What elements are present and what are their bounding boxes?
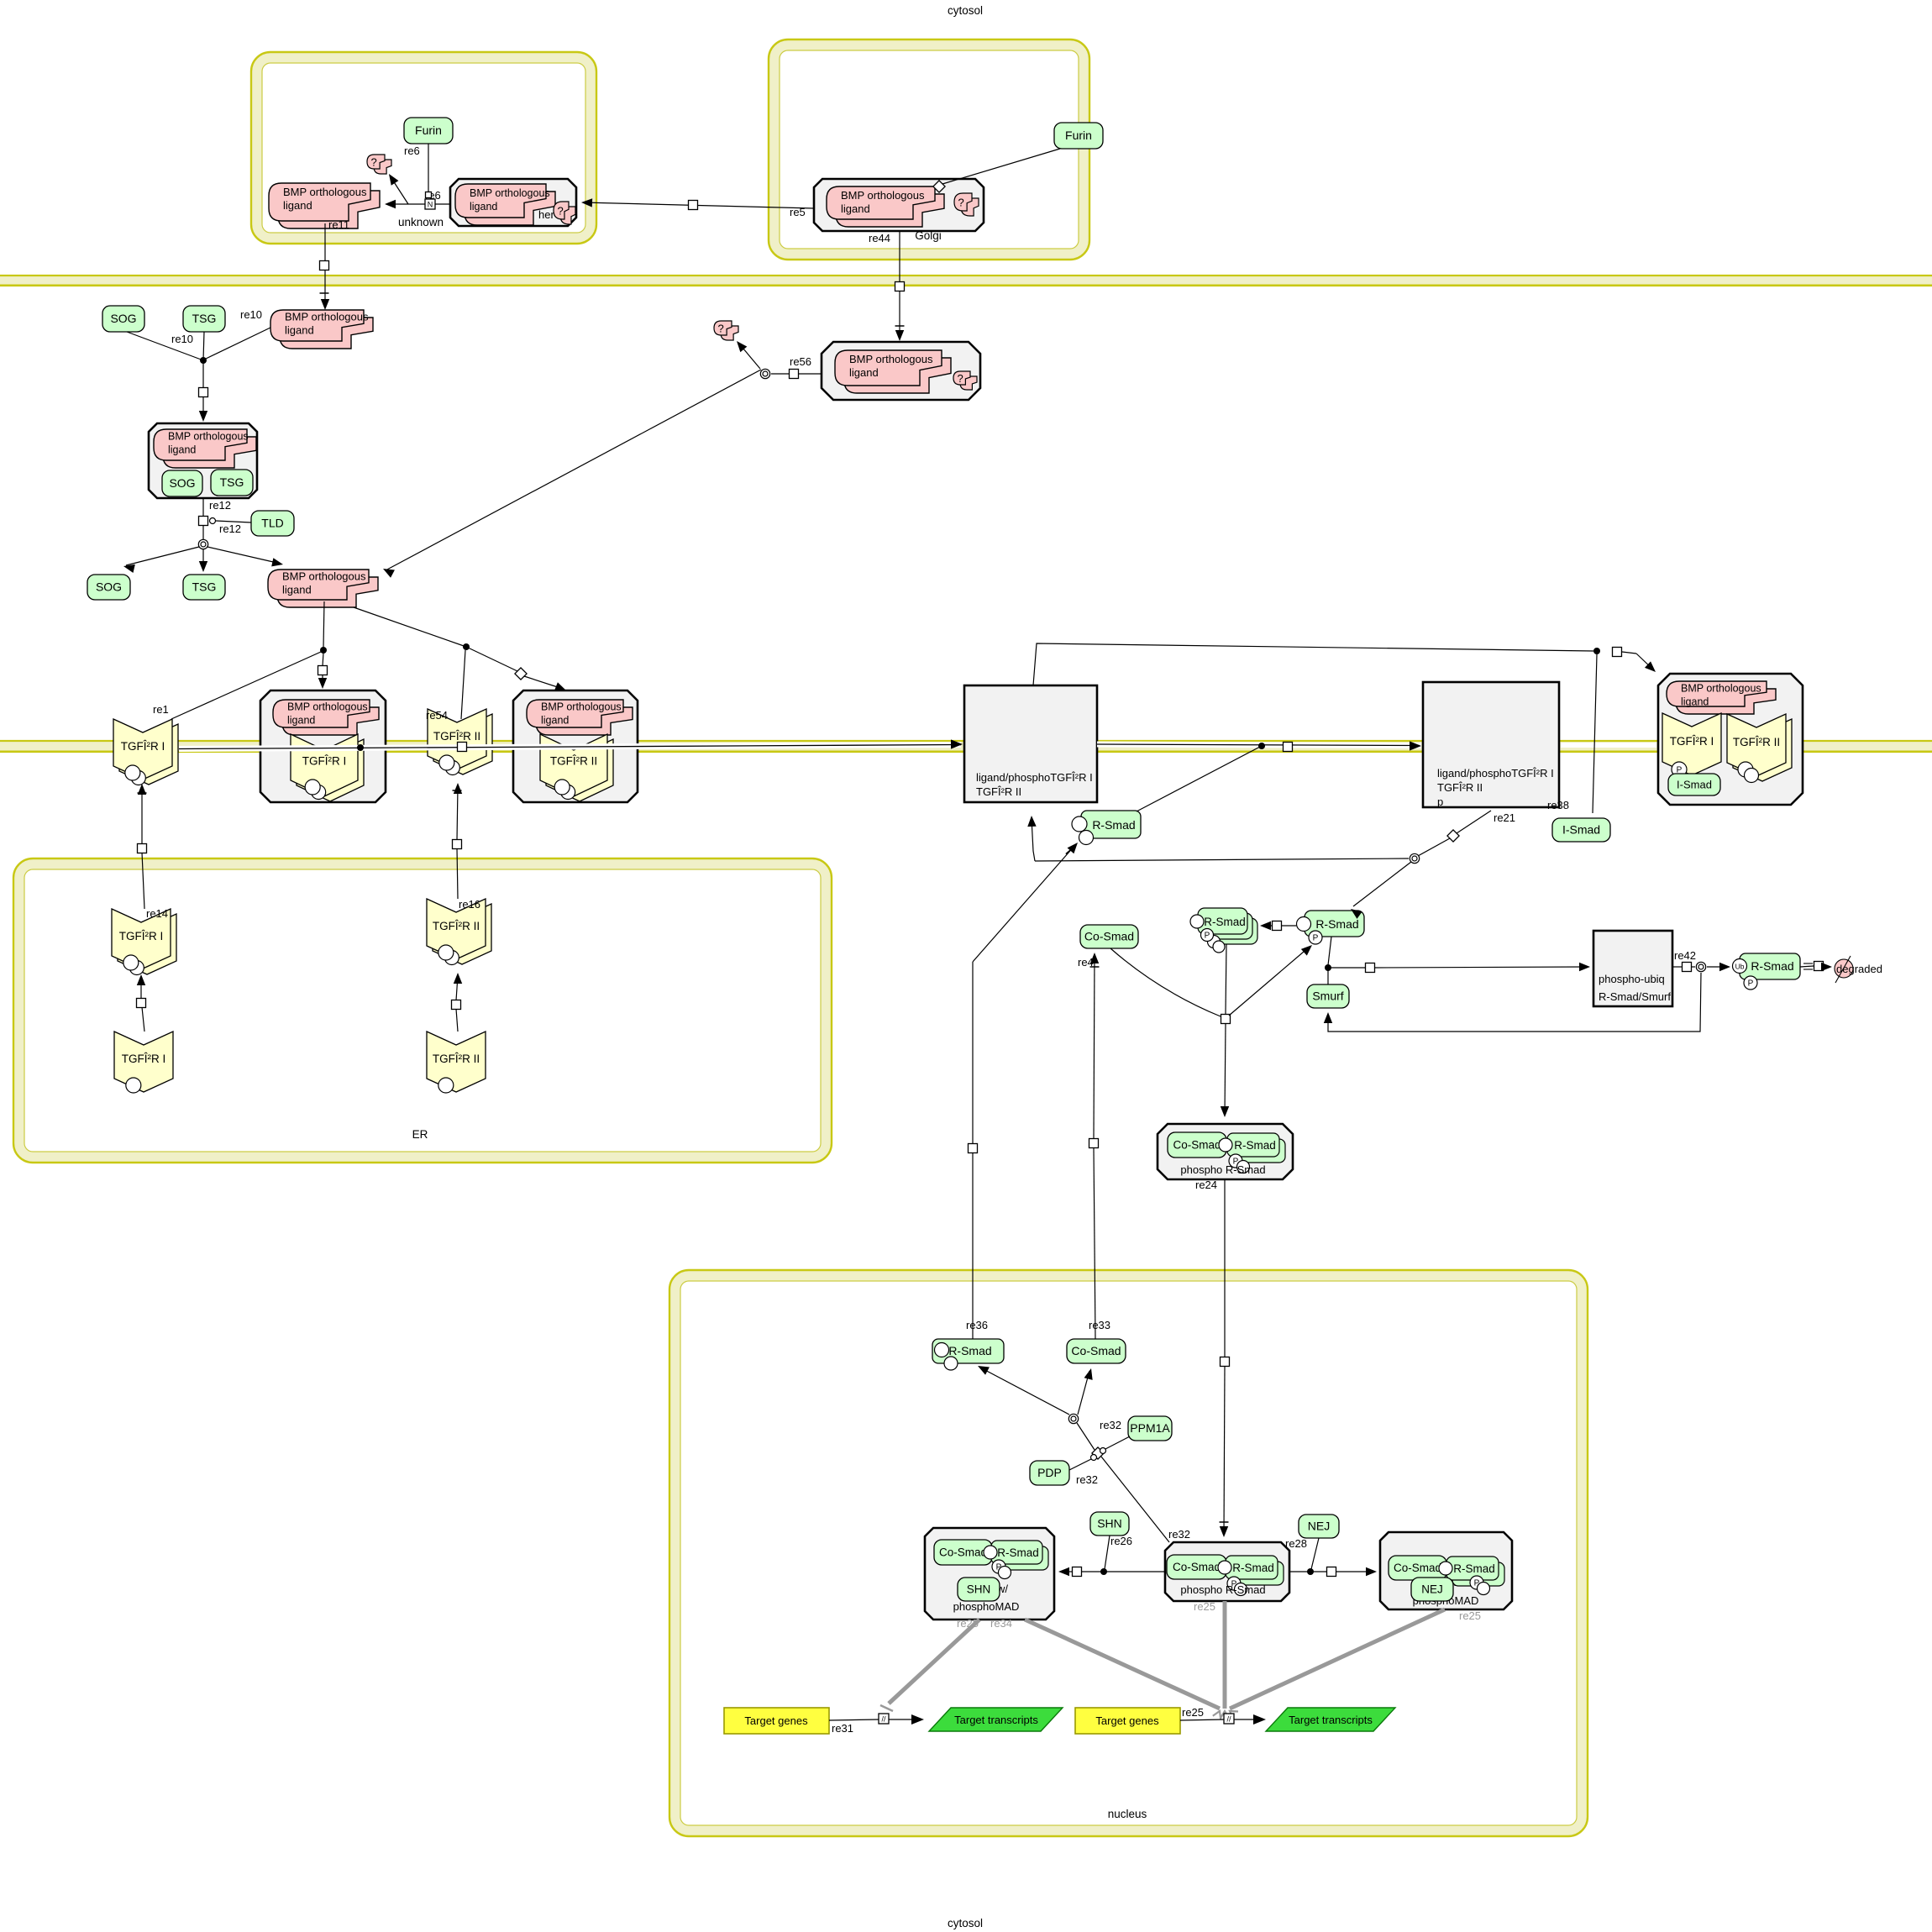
svg-text:re21: re21 [1494,811,1515,824]
svg-text:re54: re54 [426,709,448,722]
svg-text:Furin: Furin [1065,129,1092,142]
svg-text:Co-Smad: Co-Smad [1071,1344,1121,1357]
svg-text:Target genes: Target genes [1095,1714,1159,1727]
svg-text:R-Smad: R-Smad [1204,916,1246,928]
svg-text://: // [1226,1715,1231,1724]
svg-text:BMP orthologous: BMP orthologous [168,431,249,443]
svg-text:cytosol: cytosol [948,1917,983,1929]
svg-text:ligand/phosphoTGFÎ²R I: ligand/phosphoTGFÎ²R I [976,771,1093,784]
svg-text:BMP orthologous: BMP orthologous [287,701,368,713]
svg-text:re12: re12 [209,499,231,512]
svg-text:ligand: ligand [282,584,312,596]
svg-text:unknown: unknown [398,216,444,228]
svg-text:P: P [1313,934,1319,943]
svg-text:Co-Smad: Co-Smad [939,1546,987,1559]
svg-text:TGFÎ²R II: TGFÎ²R II [1733,736,1780,748]
svg-text:Ub: Ub [1735,963,1745,971]
svg-text:TGFÎ²R II: TGFÎ²R II [433,1053,480,1065]
svg-text:re34: re34 [990,1617,1012,1630]
svg-text:I-Smad: I-Smad [1677,779,1712,791]
svg-text:TGFÎ²R I: TGFÎ²R I [122,1053,166,1065]
svg-text:BMP orthologous: BMP orthologous [849,353,933,365]
svg-text:?: ? [371,156,377,169]
svg-text:BMP orthologous: BMP orthologous [282,570,366,583]
svg-text:ligand: ligand [541,715,569,727]
svg-text:TGFÎ²R II: TGFÎ²R II [550,755,597,768]
svg-text:BMP orthologous: BMP orthologous [1681,683,1761,695]
svg-text:degraded: degraded [1836,963,1882,975]
svg-text:I-Smad: I-Smad [1562,823,1600,837]
svg-text:R-Smad: R-Smad [1092,818,1135,832]
svg-text:phospho-ubiq: phospho-ubiq [1599,973,1665,985]
svg-text:TSG: TSG [192,312,217,325]
svg-text:?: ? [718,323,724,335]
svg-text:phospho R-Smad: phospho R-Smad [1180,1163,1265,1176]
svg-text:ligand: ligand [285,324,314,337]
svg-text:R-Smad: R-Smad [1232,1562,1274,1574]
svg-text:TGFÎ²R I: TGFÎ²R I [1670,735,1714,748]
svg-text:ligand: ligand [849,366,879,379]
svg-text:TSG: TSG [220,475,244,489]
svg-text:nucleus: nucleus [1108,1808,1147,1820]
svg-text:Co-Smad: Co-Smad [1173,1561,1221,1573]
svg-text:re25: re25 [1194,1600,1215,1613]
svg-text:re31: re31 [832,1722,853,1735]
svg-text:re56: re56 [790,355,811,368]
svg-text:TGFÎ²R I: TGFÎ²R I [121,740,165,753]
svg-text:re10: re10 [171,333,193,345]
svg-text:phosphoMAD: phosphoMAD [953,1600,1020,1613]
svg-text:BMP orthologous: BMP orthologous [470,187,550,199]
svg-text:p: p [1437,795,1443,808]
svg-text:re32: re32 [1076,1473,1098,1486]
svg-text:ligand: ligand [287,715,315,727]
svg-text:ligand: ligand [1681,696,1709,708]
svg-text:re28: re28 [1285,1537,1307,1550]
svg-text:ER: ER [412,1128,428,1141]
svg-text:re10: re10 [240,308,262,321]
svg-text:TGFÎ²R II: TGFÎ²R II [433,730,480,743]
svg-text:BMP orthologous: BMP orthologous [285,311,369,323]
svg-text:R-Smad: R-Smad [1315,917,1358,931]
svg-text:re32: re32 [1100,1419,1121,1431]
svg-text:phospho R-Smad: phospho R-Smad [1180,1583,1265,1596]
svg-text:R-Smad: R-Smad [948,1344,991,1357]
svg-text:ligand: ligand [168,444,196,456]
svg-text:P: P [1205,932,1210,941]
svg-text:Co-Smad: Co-Smad [1084,930,1134,943]
svg-text:ligand: ligand [470,201,497,213]
svg-text:BMP orthologous: BMP orthologous [841,189,925,202]
svg-text:?: ? [958,372,963,385]
svg-text:Target transcripts: Target transcripts [1289,1714,1373,1726]
svg-text:Target genes: Target genes [744,1714,808,1727]
svg-text:?: ? [958,197,964,209]
svg-text:Co-Smad: Co-Smad [1394,1562,1441,1574]
svg-text:P: P [1748,979,1754,989]
svg-text:her: her [538,208,554,221]
svg-text:ligand: ligand [283,199,312,212]
svg-text:NEJ: NEJ [1421,1583,1443,1596]
svg-text:R-Smad: R-Smad [1453,1562,1495,1575]
svg-text:TGFÎ²R II: TGFÎ²R II [433,920,480,932]
svg-text:re44: re44 [869,232,890,244]
svg-text:re16: re16 [459,898,480,911]
svg-text:cytosol: cytosol [948,4,983,17]
svg-text:R-Smad: R-Smad [1234,1139,1276,1152]
svg-text:TGFÎ²R II: TGFÎ²R II [976,785,1021,798]
svg-text:SOG: SOG [169,476,195,490]
svg-text:NEJ: NEJ [1308,1520,1330,1533]
svg-text:re24: re24 [1195,1179,1217,1191]
svg-text:re42: re42 [1674,949,1696,962]
svg-text:re14: re14 [146,907,168,920]
svg-text:TGFÎ²R I: TGFÎ²R I [119,930,164,942]
svg-text:re36: re36 [966,1319,988,1331]
svg-text:N: N [428,201,433,209]
svg-text:PDP: PDP [1037,1466,1062,1479]
svg-text:re38: re38 [1547,799,1569,811]
svg-text:SOG: SOG [96,580,122,594]
svg-text:Target transcripts: Target transcripts [954,1714,1038,1726]
svg-text:re25: re25 [1459,1609,1481,1622]
svg-text:SHN: SHN [967,1583,991,1596]
svg-text:Co-Smad: Co-Smad [1173,1139,1221,1152]
svg-text:TLD: TLD [261,517,283,530]
svg-text:R-Smad/Smurf: R-Smad/Smurf [1599,990,1671,1003]
svg-text:TGFÎ²R I: TGFÎ²R I [302,755,347,768]
svg-text:TSG: TSG [192,580,217,594]
svg-text://: // [881,1715,886,1724]
svg-text:PPM1A: PPM1A [1130,1421,1170,1435]
svg-text:re12: re12 [219,522,241,535]
svg-text:?: ? [558,205,564,218]
svg-text:Smurf: Smurf [1312,990,1343,1003]
svg-text:ligand: ligand [841,202,870,215]
svg-text:BMP orthologous: BMP orthologous [283,186,367,198]
svg-text:re26: re26 [1110,1535,1132,1547]
svg-text:SHN: SHN [1097,1517,1122,1530]
svg-text:ligand/phosphoTGFÎ²R I: ligand/phosphoTGFÎ²R I [1437,767,1554,780]
svg-text:R-Smad: R-Smad [1751,959,1793,973]
svg-text:BMP orthologous: BMP orthologous [541,701,622,713]
svg-text:Furin: Furin [415,123,442,137]
svg-text:re33: re33 [1089,1319,1110,1331]
svg-text:re25: re25 [1182,1706,1204,1719]
svg-text:TGFÎ²R II: TGFÎ²R II [1437,781,1483,794]
svg-text:re11: re11 [328,218,349,231]
svg-text:re6: re6 [404,144,420,157]
svg-text:re32: re32 [1168,1528,1190,1541]
svg-text:R-Smad: R-Smad [997,1546,1039,1559]
svg-text:re1: re1 [153,703,169,716]
svg-text:SOG: SOG [110,312,136,325]
